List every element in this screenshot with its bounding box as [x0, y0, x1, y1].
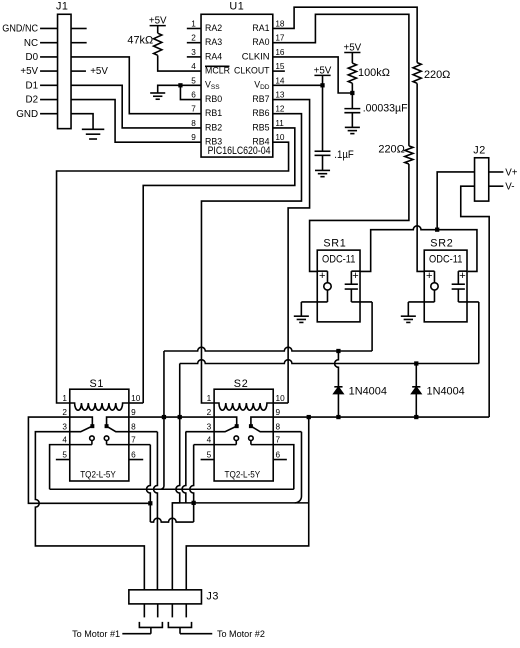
- svg-text:220Ω: 220Ω: [378, 144, 404, 156]
- wire VSS pin5 to ground: [158, 85, 201, 92]
- wire U1 pin3 stub: [187, 56, 201, 58]
- svg-text:RB7: RB7: [252, 94, 269, 104]
- wire motor1 link: [150, 518, 193, 522]
- node S2 pin9 drop: [307, 415, 311, 419]
- wire J1 GND lead: [40, 113, 57, 115]
- svg-text:RB4: RB4: [252, 137, 269, 147]
- S1 pole B blade: [107, 426, 129, 432]
- svg-text:RA0: RA0: [252, 37, 269, 47]
- SR2 ground drop: [407, 302, 409, 316]
- capacitor inside SR1: [345, 283, 358, 285]
- wire RB5 to S1 pin10: [143, 128, 295, 403]
- SR1 LED lead: [326, 271, 328, 283]
- wire RB7 to S2 pin10: [273, 100, 310, 403]
- svg-text:6: 6: [275, 451, 280, 460]
- svg-text:J2: J2: [473, 145, 486, 157]
- wire S2 pin4 run: [194, 444, 214, 446]
- wire RA1 pin18 to R2: [273, 7, 417, 62]
- wire S1 pin3 to J3 pin1: [35, 432, 144, 590]
- svg-text:TQ2-L-5Y: TQ2-L-5Y: [225, 469, 261, 479]
- svg-text:11: 11: [275, 119, 284, 128]
- node S2 pole B: [249, 424, 253, 428]
- wire V+ node to SR1 output side: [360, 226, 437, 272]
- svg-text:D1: D1: [26, 80, 39, 91]
- wire S1 pin5 stub: [56, 459, 70, 461]
- svg-text:18: 18: [275, 19, 285, 28]
- svg-text:CLKOUT: CLKOUT: [234, 66, 270, 76]
- node diode D2 tap: [414, 361, 418, 365]
- svg-text:+: +: [426, 270, 432, 282]
- svg-text:RB0: RB0: [205, 94, 222, 104]
- svg-text:12: 12: [275, 105, 285, 114]
- svg-text:J3: J3: [206, 590, 219, 602]
- svg-text:9: 9: [131, 408, 136, 417]
- node D1 anode: [336, 415, 340, 419]
- resistor R2 220 upper: [413, 63, 421, 84]
- svg-text:U1: U1: [229, 1, 244, 13]
- wire V- stub: [489, 185, 504, 187]
- SR1 output cap lead: [350, 271, 352, 284]
- resistor R4 100k: [348, 63, 356, 83]
- svg-text:RA1: RA1: [252, 23, 269, 33]
- wire SR1 drop to supply bus: [161, 417, 164, 489]
- svg-text:7: 7: [275, 436, 280, 445]
- diode D1 1N4004 anode lead: [337, 393, 339, 417]
- svg-text:2: 2: [191, 34, 196, 43]
- S2 pole A blade: [214, 426, 237, 432]
- S1 pole B NO contact: [104, 436, 109, 441]
- svg-text:RA3: RA3: [205, 37, 222, 47]
- wire S1 pin8 to J3 pin2: [129, 431, 158, 433]
- J3 pin4 stub: [185, 604, 187, 617]
- wire S2 pin8 drop: [295, 432, 302, 503]
- wire VSS to RB0 pin6: [180, 85, 201, 99]
- svg-text:.00033µF: .00033µF: [363, 103, 408, 115]
- svg-text:7: 7: [131, 436, 136, 445]
- wire S2 pin3 vertical: [182, 432, 186, 503]
- SR2 output cap lead: [457, 271, 459, 284]
- wire V+ to SR outputs: [437, 172, 474, 230]
- svg-text:VDD: VDD: [254, 80, 270, 91]
- svg-text:V-: V-: [505, 182, 514, 193]
- svg-text:6: 6: [131, 451, 136, 460]
- relay S1 body: [70, 389, 129, 481]
- wire CLKIN pin16 to RC node: [273, 57, 353, 93]
- SR1 ground drop: [300, 302, 302, 316]
- ground at C2: [315, 169, 330, 171]
- connector J2: [475, 158, 489, 201]
- wire SR2 output bus: [180, 360, 479, 364]
- node SR2 to pole bus: [178, 415, 182, 419]
- wire J1 D1 lead: [40, 84, 57, 86]
- node S1 pole B: [105, 424, 109, 428]
- wire RA0 pin17 to R3: [273, 14, 409, 146]
- svg-text:10: 10: [275, 133, 285, 142]
- wire C1 to ground: [351, 113, 353, 127]
- S2 pole B feed: [251, 417, 273, 426]
- svg-text:VSS: VSS: [205, 80, 220, 91]
- resistor R3 220 lower: [405, 146, 413, 164]
- diode D2 triangle: [412, 387, 421, 393]
- wire V- to S2 pin9 bus: [461, 186, 489, 417]
- svg-text:47kΩ: 47kΩ: [127, 35, 153, 47]
- svg-text:1N4004: 1N4004: [427, 385, 465, 397]
- svg-text:RB2: RB2: [205, 122, 222, 132]
- svg-text:S1: S1: [89, 378, 104, 390]
- wire RB4 to S1 pin1: [57, 142, 289, 403]
- solid state relay SR1 body: [317, 250, 360, 322]
- SR1 LED circle: [324, 283, 331, 290]
- svg-text:9: 9: [191, 133, 196, 142]
- wire S1 pin7 drop: [129, 444, 150, 446]
- node D2 anode: [414, 415, 418, 419]
- wire D2 to RB3: [71, 100, 201, 143]
- wire J1 pin1 stub: [71, 27, 87, 29]
- coil of S1: [70, 403, 129, 410]
- wire +5V stem to VDD node: [322, 75, 324, 85]
- wire S1 pin6 stub: [129, 459, 143, 461]
- svg-text:13: 13: [275, 91, 285, 100]
- svg-text:9: 9: [275, 408, 280, 417]
- wire diode D2 link: [415, 363, 417, 386]
- wire +5V to R4: [351, 52, 353, 63]
- svg-text:PIC16LC620-04: PIC16LC620-04: [208, 145, 271, 157]
- ground at SR2: [401, 315, 416, 317]
- resistor R1 47k: [154, 33, 162, 55]
- wire J1 GND to ground: [71, 114, 93, 130]
- wire R3 to SR1 input: [310, 164, 409, 271]
- wire V+ node to SR2 output side: [437, 230, 477, 272]
- wire D0 to RB1: [71, 57, 201, 114]
- svg-text:17: 17: [275, 34, 285, 43]
- diode D2 1N4004 anode lead: [415, 393, 417, 417]
- connector J1: [58, 14, 71, 128]
- wire SR2 output: [458, 301, 478, 303]
- svg-text:RB5: RB5: [252, 122, 269, 132]
- J3 pin1 stub: [143, 604, 145, 617]
- node V+ junction: [435, 228, 439, 232]
- svg-text:GND/NC: GND/NC: [2, 24, 38, 35]
- wire R2 to SR2 input: [417, 83, 424, 271]
- wire SR2 jog to J3 pin3: [172, 503, 179, 590]
- wire S2 pin5 stub: [201, 459, 214, 461]
- connector J3: [129, 590, 202, 604]
- wire U1 pin1 stub: [187, 27, 201, 29]
- svg-text:RA2: RA2: [205, 23, 222, 33]
- wire SR1 output: [351, 301, 372, 303]
- svg-text:4: 4: [207, 436, 212, 445]
- wire S1 pin10 stub: [129, 402, 143, 404]
- wire R4 to C1: [351, 83, 353, 108]
- svg-text:16: 16: [275, 48, 285, 57]
- capacitor C2 .1uF: [315, 150, 331, 152]
- SR2 cap bottom lead: [457, 289, 459, 302]
- wire pole bus S1 to S2: [129, 416, 214, 418]
- svg-text:14: 14: [275, 76, 285, 85]
- wire +5V to R1: [157, 26, 159, 34]
- wire diode D1 link: [335, 351, 339, 387]
- wire J1 GND/NC lead: [40, 27, 57, 29]
- wire S2 pin9 bus: [273, 416, 489, 418]
- S2 pole B NO lead: [250, 441, 252, 445]
- svg-text:3: 3: [191, 48, 196, 57]
- svg-text:SR2: SR2: [430, 237, 453, 249]
- svg-text:1: 1: [191, 19, 196, 28]
- wire SR2 drop to J3: [176, 417, 180, 503]
- wire SR1 output bus: [164, 347, 372, 351]
- SR2 LED cathode lead: [433, 290, 435, 302]
- ground at C1: [345, 126, 360, 128]
- node VDD junction: [320, 83, 324, 87]
- svg-text:GND: GND: [16, 109, 38, 120]
- svg-text:RB1: RB1: [205, 108, 222, 118]
- svg-text:+5V: +5V: [20, 66, 38, 77]
- wire J3 pin3 bus: [172, 502, 308, 504]
- wire VDD pin14 to +5V: [273, 84, 323, 86]
- S1 pole A feed: [70, 417, 93, 426]
- wire S2 pin7 run: [273, 445, 294, 490]
- S2 pole A feed: [214, 417, 237, 426]
- svg-text:8: 8: [191, 119, 196, 128]
- SR2 cathode rail: [408, 301, 434, 303]
- SR2 LED circle: [431, 283, 438, 290]
- svg-text:5: 5: [207, 451, 212, 460]
- solid state relay SR2 body: [424, 250, 467, 322]
- svg-text:2: 2: [207, 408, 212, 417]
- svg-text:4: 4: [191, 62, 196, 71]
- wire S2 pin6 stub: [273, 459, 287, 461]
- ground at J1: [82, 128, 104, 130]
- svg-text:6: 6: [191, 91, 196, 100]
- svg-text:220Ω: 220Ω: [424, 69, 450, 81]
- svg-text:1: 1: [62, 394, 67, 403]
- svg-text:100kΩ: 100kΩ: [358, 67, 390, 79]
- capacitor inside SR2: [452, 283, 465, 285]
- S1 pole B NO lead: [106, 441, 108, 445]
- SR1 LED cathode lead: [326, 290, 328, 302]
- SR1 cap bottom lead: [350, 289, 352, 302]
- svg-text:RB6: RB6: [252, 108, 269, 118]
- wire NO supply bus: [50, 488, 294, 490]
- ground at SR1: [294, 315, 309, 317]
- wire J1 +5V stub: [71, 70, 86, 72]
- svg-text:8: 8: [275, 423, 280, 432]
- J3 pin2 stub: [157, 604, 159, 617]
- op-amp U1 PIC16LC620 body: [201, 14, 273, 157]
- node S2 pole A: [235, 424, 239, 428]
- S1 pole A NO lead: [91, 441, 93, 445]
- wire D1 to RB2: [71, 85, 201, 128]
- svg-text:SR1: SR1: [323, 237, 346, 249]
- node S1 pole A: [90, 424, 94, 428]
- ground at VSS: [150, 92, 165, 94]
- wire SR1 bus drop: [163, 351, 165, 417]
- svg-text:8: 8: [131, 423, 136, 432]
- S2 pole A NO contact: [234, 436, 239, 441]
- svg-text:J1: J1: [56, 1, 69, 13]
- svg-text:+: +: [352, 270, 358, 282]
- svg-text:CLKIN: CLKIN: [242, 51, 270, 61]
- wire RB6 to S2 pin1: [201, 114, 301, 403]
- wire R1 to MCLR pin4: [158, 55, 201, 71]
- svg-text:RB3: RB3: [205, 137, 222, 147]
- node diode D1 tap: [336, 349, 340, 353]
- svg-text:V+: V+: [505, 167, 518, 178]
- S2 pole A NO lead: [235, 441, 237, 445]
- svg-text:To Motor #1: To Motor #1: [72, 629, 120, 639]
- wire to motor 1: [122, 633, 151, 635]
- svg-text:RA4: RA4: [205, 51, 222, 61]
- svg-text:15: 15: [275, 62, 285, 71]
- svg-text:1: 1: [207, 394, 212, 403]
- SR1 output rail: [351, 270, 360, 272]
- wire S1 pin4 run: [50, 445, 70, 490]
- diode D1 triangle: [334, 387, 343, 393]
- svg-text:.1µF: .1µF: [334, 149, 354, 161]
- svg-text:NC: NC: [24, 38, 38, 49]
- coil of S2: [214, 403, 273, 410]
- wire S1 pin2 to pole bus: [28, 417, 150, 503]
- wire SR2 output to bus: [478, 302, 480, 364]
- svg-text:10: 10: [131, 394, 141, 403]
- node RC junction: [350, 91, 354, 95]
- relay S2 body: [214, 389, 273, 481]
- diode D2 cathode bar: [412, 386, 420, 388]
- svg-text:1N4004: 1N4004: [349, 385, 387, 397]
- svg-text:+5V: +5V: [90, 66, 108, 77]
- svg-text:D0: D0: [26, 52, 39, 63]
- wire S2 pin9 to J3 pin4: [186, 417, 308, 590]
- SR2 output rail: [458, 270, 467, 272]
- node VSS junction: [178, 83, 182, 87]
- wire VDD to C2: [322, 85, 324, 151]
- svg-text:+: +: [319, 270, 325, 282]
- svg-text:S2: S2: [234, 378, 249, 390]
- wire S2 pin10 stub: [273, 402, 288, 404]
- wire S1 pin8 vertical: [154, 432, 158, 590]
- svg-text:TQ2-L-5Y: TQ2-L-5Y: [80, 469, 116, 479]
- wire S1 pin7 vertical: [146, 445, 150, 504]
- svg-text:5: 5: [62, 451, 67, 460]
- SR2 input rail: [424, 270, 434, 272]
- wire V+ stub: [489, 171, 504, 173]
- wire J1 NC lead: [40, 42, 57, 44]
- svg-text:7: 7: [191, 105, 196, 114]
- wire J1 D0 lead: [40, 56, 57, 58]
- S1 pole A blade: [70, 426, 93, 432]
- wire CLKOUT pin15 stub: [273, 70, 285, 72]
- svg-text:2: 2: [62, 408, 67, 417]
- wire to motor 2: [180, 633, 212, 635]
- S2 pole B NO contact: [249, 436, 254, 441]
- wire SR1 output to bus: [371, 302, 373, 351]
- SR1 cathode rail: [301, 301, 327, 303]
- motor 2 bracket: [168, 622, 191, 628]
- svg-text:D2: D2: [26, 95, 39, 106]
- wire SR2 bus drop: [179, 363, 181, 417]
- wire J1 D2 lead: [40, 99, 57, 101]
- SR2 LED lead: [433, 271, 435, 283]
- S2 pole B blade: [251, 426, 273, 432]
- svg-text:10: 10: [275, 394, 285, 403]
- wire J1 pin2 stub: [71, 42, 87, 44]
- diode D1 cathode bar: [334, 386, 342, 388]
- capacitor C1 .00033uF: [344, 108, 360, 110]
- motor 1 bracket: [139, 622, 162, 628]
- wire S1 pin7 to link: [149, 503, 151, 522]
- J3 pin3 stub: [171, 604, 173, 617]
- node SR1 to pole bus: [162, 415, 166, 419]
- wire S2 pin8 run: [273, 431, 301, 433]
- node S2 pin4 to bus: [192, 501, 196, 505]
- wire S2 pin3 drop: [186, 431, 215, 433]
- svg-text:5: 5: [191, 76, 196, 85]
- SR1 input rail: [317, 270, 327, 272]
- wire C2 to ground: [322, 155, 324, 170]
- svg-text:To Motor #2: To Motor #2: [217, 629, 265, 639]
- wire J1 +5V lead: [40, 70, 57, 72]
- node S1 pin7 join: [148, 501, 152, 505]
- svg-text:4: 4: [62, 436, 67, 445]
- svg-text:ODC-11: ODC-11: [322, 253, 355, 265]
- S1 pole B feed: [107, 417, 129, 426]
- svg-text:+: +: [459, 270, 465, 282]
- svg-text:3: 3: [62, 423, 67, 432]
- wire U1 pin2 stub: [187, 42, 201, 44]
- svg-text:3: 3: [207, 423, 212, 432]
- svg-text:ODC-11: ODC-11: [429, 253, 462, 265]
- S1 pole A NO contact: [90, 436, 95, 441]
